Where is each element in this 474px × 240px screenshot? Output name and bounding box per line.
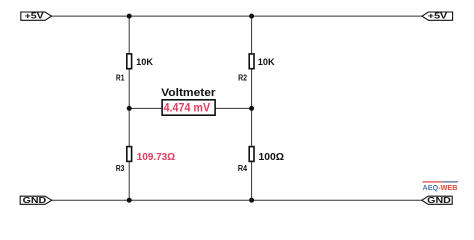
value label 10K (R2): [258, 57, 275, 67]
svg-text:R4: R4: [238, 164, 248, 173]
node mid-left junction: [127, 106, 132, 111]
svg-text:GND: GND: [23, 195, 47, 205]
voltmeter box U1: [162, 100, 215, 115]
logo AEQ-WEB: [423, 181, 459, 192]
svg-text:AEQ-WEB: AEQ-WEB: [423, 183, 458, 192]
svg-text:10K: 10K: [258, 57, 275, 67]
ground flag GND right: [422, 195, 452, 205]
wire left branch: [128, 16, 130, 200]
resistor R3 body: [127, 147, 132, 162]
voltmeter reading 4.474 mV: [164, 101, 211, 115]
value label 10K (R1): [136, 57, 153, 67]
node top-left junction: [127, 14, 132, 19]
value label 100Ω (R4): [259, 152, 285, 163]
ground flag GND left: [20, 195, 52, 205]
svg-text:R2: R2: [238, 73, 247, 82]
node bottom-left junction: [127, 198, 132, 203]
svg-text:GND: GND: [427, 195, 451, 205]
svg-text:+5V: +5V: [25, 11, 45, 21]
power flag +5V left: [21, 11, 52, 21]
resistor R1 body: [127, 54, 132, 69]
svg-text:4.474 mV: 4.474 mV: [164, 101, 211, 115]
wire voltmeter bridge: [129, 107, 251, 109]
svg-text:10K: 10K: [136, 57, 153, 67]
voltmeter label: [161, 87, 216, 99]
wire bottom rail: [51, 199, 423, 201]
svg-text:100Ω: 100Ω: [259, 152, 285, 163]
node bottom-right junction: [249, 198, 254, 203]
designator R3: [116, 164, 125, 173]
wire right branch: [251, 16, 253, 200]
svg-text:R1: R1: [116, 73, 125, 82]
svg-text:109.73Ω: 109.73Ω: [137, 152, 175, 163]
designator R4: [238, 164, 248, 173]
resistor R2 body: [249, 54, 254, 69]
power flag +5V right: [422, 11, 453, 21]
designator R1: [116, 73, 125, 82]
node mid-right junction: [249, 106, 254, 111]
wire top rail: [51, 15, 423, 17]
designator R2: [238, 73, 247, 82]
svg-text:+5V: +5V: [428, 11, 448, 21]
node top-right junction: [249, 14, 254, 19]
svg-text:R3: R3: [116, 164, 125, 173]
resistor R4 body: [249, 147, 254, 162]
value label 109.73Ω (R3): [137, 152, 175, 163]
svg-text:Voltmeter: Voltmeter: [161, 87, 216, 99]
